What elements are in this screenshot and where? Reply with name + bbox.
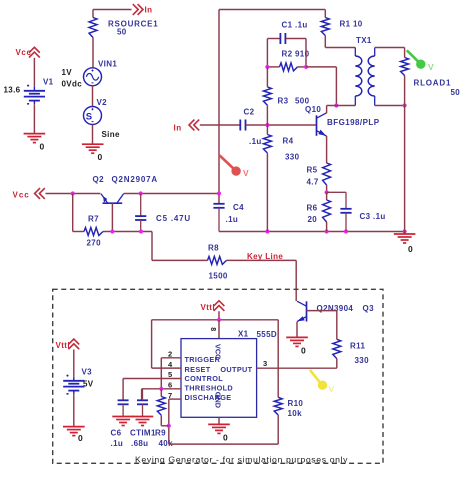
voltage probe V (green) [407, 50, 419, 62]
svg-text:R10: R10 [288, 399, 304, 408]
ground (C6) [112, 416, 134, 418]
wire main left vertical (R1/C1 net) [218, 10, 220, 204]
capacitor C1 .1u [279, 33, 281, 44]
ground (CTIM1) [132, 416, 154, 418]
node Vttl stub [217, 318, 221, 322]
wire pin2 to threshold net [160, 358, 162, 389]
svg-text:V: V [428, 62, 434, 72]
resistor R7 270 [84, 228, 103, 236]
wire Q3 emitter to ground [296, 322, 298, 337]
svg-text:Q2: Q2 [93, 175, 105, 184]
op-amp/timer X1 555D box [181, 339, 257, 418]
svg-text:VIN1: VIN1 [98, 60, 117, 69]
svg-text:C2: C2 [244, 108, 255, 117]
node R3/R4/base [265, 123, 269, 127]
wire node to C3 [327, 191, 346, 193]
svg-text:THRESHOLD: THRESHOLD [185, 384, 234, 393]
transistor Q3 Q2N3904 (NPN, mirrored) [306, 301, 308, 321]
svg-text:3: 3 [263, 359, 268, 368]
ground 0 (V1) [24, 133, 46, 135]
wire collector node to TX1 left coil [327, 105, 356, 107]
wire In net top [93, 9, 132, 11]
wire Key Line [227, 259, 297, 261]
voltage probe V (yellow) [310, 370, 321, 384]
svg-text:0: 0 [301, 346, 306, 356]
svg-text:V: V [243, 168, 249, 178]
svg-text:5V: 5V [83, 380, 94, 389]
wire pin7 discharge down [168, 399, 170, 444]
node R6 bottom [325, 229, 329, 233]
wire Vcc to V1 [33, 58, 35, 86]
wire reset branch [151, 320, 153, 368]
svg-text:OUTPUT: OUTPUT [220, 365, 252, 374]
svg-text:20: 20 [308, 215, 318, 224]
svg-text:R11: R11 [350, 342, 365, 351]
svg-text:6: 6 [168, 381, 173, 390]
source V2 Sine [84, 107, 102, 125]
svg-text:.1u: .1u [226, 215, 239, 224]
svg-text:R7: R7 [88, 215, 99, 224]
wire Vcc to Q2 emitter [46, 193, 101, 195]
svg-text:DISCHARGE: DISCHARGE [185, 393, 232, 402]
voltage probe V (red) [220, 155, 235, 169]
keying generator dashed box [53, 289, 383, 463]
wire Q10 collector [326, 106, 328, 114]
svg-text:BFG198/PLP: BFG198/PLP [327, 118, 380, 127]
pin 5 stub [123, 378, 181, 380]
resistor R8 1500 [208, 256, 227, 264]
wire R5 to node [326, 185, 328, 192]
svg-text:.1u: .1u [111, 439, 124, 448]
wire VIN1 to V2 [92, 86, 94, 107]
node pin2/pin6/R9 [159, 387, 163, 391]
pin 1 gnd stub [218, 417, 220, 424]
resistor R11 330 [333, 339, 341, 358]
pin 2 stub [161, 357, 181, 359]
svg-text:X1: X1 [238, 329, 249, 338]
resistor R6 20 [326, 192, 328, 200]
svg-text:0: 0 [98, 152, 103, 162]
svg-text:0: 0 [223, 433, 228, 443]
port In (right arrow) [138, 4, 143, 15]
node C5 bottom [139, 229, 143, 233]
svg-text:In: In [145, 6, 153, 15]
wire V2 to ground [92, 125, 94, 145]
svg-text:R1 10: R1 10 [340, 20, 363, 29]
wire Q2 collector to C5/C4 node [124, 193, 219, 195]
svg-text:Vttl: Vttl [201, 303, 216, 312]
pin 4 stub [152, 367, 181, 369]
node RLOAD net [403, 103, 407, 107]
svg-text:50: 50 [117, 28, 127, 37]
wire base rail [103, 231, 152, 233]
svg-text:4: 4 [168, 360, 173, 369]
svg-text:C4: C4 [233, 203, 244, 212]
svg-text:0: 0 [408, 244, 413, 254]
wire C2 to base node [246, 124, 317, 126]
svg-text:In: In [174, 124, 182, 133]
resistor RSOURCE1 50 [92, 10, 94, 18]
capacitor C6 .1u [118, 399, 129, 401]
source VIN1 (sine) [84, 68, 102, 86]
node C5 top [139, 191, 143, 195]
pin 3 stub / output wire [257, 367, 337, 369]
wire Vcc pin stub [218, 320, 220, 339]
wire R1 to TX1 [324, 36, 326, 48]
node R4 bottom [265, 229, 269, 233]
svg-text:R4: R4 [283, 137, 294, 146]
svg-text:330: 330 [285, 153, 300, 162]
wire key line down to Q3 [295, 260, 297, 301]
svg-text:Q3: Q3 [363, 304, 375, 313]
svg-text:5: 5 [168, 370, 173, 379]
capacitor C5 .47U [140, 194, 142, 217]
svg-text:1500: 1500 [209, 272, 228, 281]
svg-text:S: S [86, 112, 93, 123]
wire pin6 to CTIM1 [141, 389, 143, 401]
node R9 bottom joins [167, 424, 171, 428]
svg-text:Q2N3904: Q2N3904 [317, 304, 354, 313]
ground 0 (Q3) [286, 336, 308, 338]
svg-text:1V: 1V [62, 68, 73, 77]
battery V3 5V [63, 380, 84, 382]
wire Vttl rail [152, 319, 279, 321]
svg-text:2: 2 [168, 350, 173, 359]
node R5/R6/C3 [325, 190, 329, 194]
wire top net [219, 9, 325, 11]
svg-text:7: 7 [168, 391, 173, 400]
pin 7 stub [169, 398, 181, 400]
svg-text:13.6: 13.6 [4, 86, 21, 95]
node Q2 base-rail [110, 229, 114, 233]
svg-text:Vttl: Vttl [56, 341, 71, 350]
transistor Q10 BFG198/PLP (NPN) [316, 115, 318, 136]
svg-text:V3: V3 [82, 368, 93, 377]
wire Q3 base to R11 [307, 310, 337, 312]
wire C1 loop left [266, 39, 268, 67]
svg-text:0: 0 [40, 142, 45, 152]
svg-text:RLOAD1: RLOAD1 [414, 79, 452, 88]
resistor R5 4.7 [323, 163, 331, 185]
svg-text:V1: V1 [43, 78, 54, 87]
svg-text:GND: GND [214, 392, 223, 408]
svg-text:270: 270 [87, 239, 102, 248]
node R2 right [304, 65, 308, 69]
capacitor C3 .1u [345, 192, 347, 209]
resistor R1 10 [324, 10, 326, 18]
svg-text:Vcc: Vcc [13, 191, 30, 200]
wire rail to key line [151, 232, 153, 261]
capacitor C2 .1u [239, 120, 241, 131]
svg-text:V: V [329, 384, 335, 394]
svg-text:555D: 555D [257, 330, 278, 339]
ground 0 (main) [404, 232, 406, 234]
node Vcc-R7 [71, 191, 75, 195]
node R2 left [265, 65, 269, 69]
wire V3 to ground [73, 394, 75, 426]
svg-text:.1u: .1u [249, 137, 262, 146]
resistor R4 330 [263, 135, 271, 154]
svg-text:10k: 10k [288, 409, 303, 418]
svg-text:Q2N2907A: Q2N2907A [112, 175, 158, 184]
capacitor CTIM1 .68u [137, 399, 148, 401]
node C3 bottom [344, 229, 348, 233]
wire Q2 base down [111, 203, 113, 231]
ground 0 (V2) [82, 143, 104, 145]
resistor RLOAD1 50 [404, 48, 406, 58]
svg-text:TX1: TX1 [356, 36, 372, 45]
svg-text:R6: R6 [307, 204, 318, 213]
svg-text:R8: R8 [208, 244, 219, 253]
wire R7 branch down [72, 194, 74, 232]
node collector junction [334, 103, 338, 107]
node Vcc wire joins [217, 191, 221, 195]
svg-text:R2 910: R2 910 [282, 50, 310, 59]
wire TX1 right top to RLOAD1 [375, 47, 405, 49]
svg-text:50: 50 [451, 88, 461, 97]
svg-text:8: 8 [209, 327, 216, 331]
svg-text:C5 .47U: C5 .47U [156, 214, 191, 223]
svg-text:0: 0 [78, 433, 83, 443]
svg-text:CONTROL: CONTROL [185, 374, 224, 383]
svg-text:R3: R3 [278, 97, 289, 106]
wire Q10 emitter to R5 [326, 136, 328, 163]
wire R2 right to collector node [306, 66, 336, 68]
transistor Q2 Q2N2907A (PNP) [103, 202, 123, 204]
svg-text:V2: V2 [97, 98, 108, 107]
svg-text:C1 .1u: C1 .1u [282, 21, 308, 30]
wire Vttl to V3 [73, 350, 75, 377]
wire V1 to ground [33, 104, 35, 133]
capacitor C4 .1u [213, 203, 224, 205]
svg-text:C6: C6 [111, 429, 122, 438]
ground 0 (555) [208, 423, 230, 425]
battery V1 13.6 [24, 90, 45, 92]
svg-text:CTIM1: CTIM1 [130, 429, 156, 438]
svg-text:VCC: VCC [214, 344, 223, 360]
svg-text:.68u: .68u [131, 439, 148, 448]
wire ground rail right [219, 231, 405, 233]
svg-text:Key Line: Key Line [247, 252, 283, 261]
wire TX1 right bottom [375, 105, 405, 107]
ground 0 (V3) [63, 426, 85, 428]
svg-text:Sine: Sine [102, 130, 120, 139]
resistor R2 910 [267, 66, 279, 68]
resistor R3 500 [263, 87, 271, 105]
resistor R10 10k [277, 320, 279, 398]
node RLOAD bottom / ground [403, 229, 407, 233]
resistor R9 40k [160, 389, 162, 397]
svg-text:C3 .1u: C3 .1u [360, 212, 386, 221]
wire RSOURCE1 to VIN1 [92, 38, 94, 68]
svg-text:4.7: 4.7 [307, 178, 319, 187]
wire In port to C2 [200, 124, 241, 126]
svg-text:R5: R5 [307, 166, 318, 175]
svg-text:RESET: RESET [185, 365, 211, 374]
svg-text:Q10: Q10 [305, 105, 321, 114]
wire pin5 to C6 [122, 379, 124, 401]
svg-text:Keying Generator - for simula: Keying Generator - for simulation purpos… [135, 455, 348, 465]
wire to R7 [73, 231, 84, 233]
svg-text:330: 330 [355, 356, 370, 365]
svg-text:0Vdc: 0Vdc [62, 80, 83, 89]
svg-text:RSOURCE1: RSOURCE1 [108, 20, 158, 29]
wire C1 loop right [286, 38, 306, 40]
svg-text:R9: R9 [155, 429, 166, 438]
pin 6 stub [142, 388, 181, 390]
